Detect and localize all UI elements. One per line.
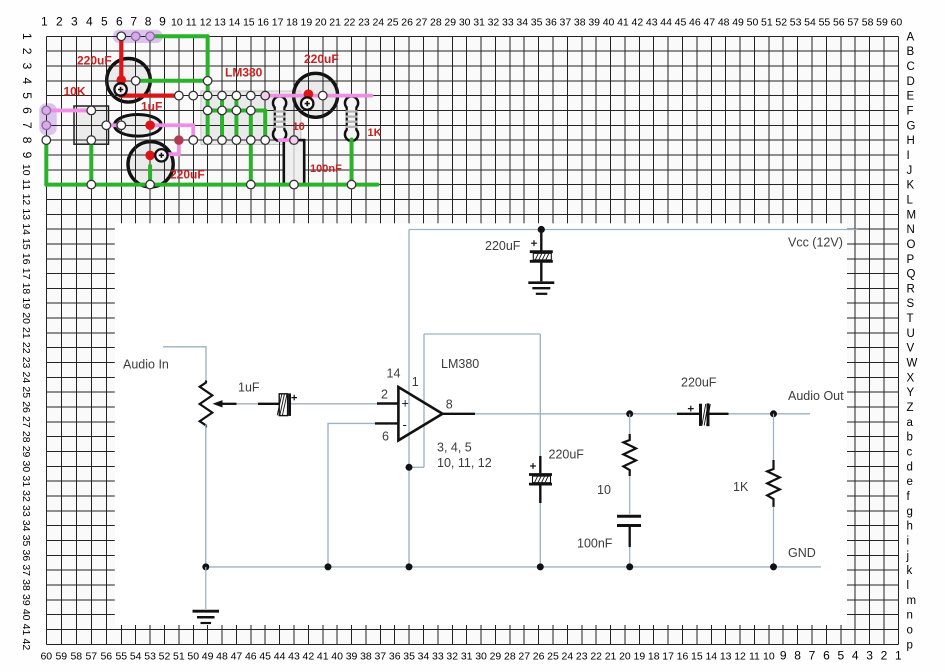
svg-text:4: 4	[86, 15, 93, 29]
svg-text:220uF: 220uF	[549, 448, 585, 462]
svg-text:l: l	[907, 580, 910, 592]
svg-text:2: 2	[881, 649, 888, 663]
wire pink row5 col16-col23.5	[265, 94, 371, 98]
svg-text:7: 7	[20, 122, 34, 129]
svg-text:6: 6	[823, 649, 830, 663]
svg-text:8: 8	[794, 649, 801, 663]
resistor 10 zigzag	[623, 434, 636, 476]
svg-text:11: 11	[186, 17, 197, 29]
node gnd dot 1k	[770, 563, 777, 570]
ground symbol bottom	[193, 611, 220, 623]
svg-text:c: c	[907, 447, 913, 459]
svg-text:37: 37	[560, 17, 572, 29]
svg-text:7: 7	[809, 649, 816, 663]
svg-text:14: 14	[20, 223, 32, 235]
svg-text:e: e	[907, 476, 913, 488]
label 220uF output	[681, 376, 717, 390]
svg-text:20: 20	[315, 17, 327, 29]
svg-text:9: 9	[20, 152, 34, 159]
svg-text:57: 57	[847, 17, 859, 29]
label 220uF bottom	[170, 167, 205, 181]
label 220uF right	[304, 52, 339, 66]
pads row11 col4 col8 col15 col18 col22	[87, 180, 356, 189]
svg-text:3, 4, 5: 3, 4, 5	[437, 441, 472, 455]
svg-text:6: 6	[20, 107, 34, 114]
svg-text:E: E	[907, 91, 915, 103]
svg-text:n: n	[907, 610, 913, 622]
svg-text:32: 32	[446, 651, 458, 663]
node red dot 1uF plus col8 row7	[145, 120, 155, 130]
svg-text:47: 47	[231, 651, 243, 663]
wire 100nF to gnd	[629, 547, 631, 567]
pads row7 col1 col5 col6	[42, 121, 126, 130]
wire pin14 vertical (Vcc to ground via pins 3,4,5)	[408, 230, 410, 567]
node Vcc junction dot	[538, 226, 545, 233]
svg-text:12: 12	[734, 651, 746, 663]
marker plus ring cap2	[301, 97, 313, 109]
svg-text:23: 23	[576, 651, 588, 663]
svg-text:X: X	[907, 372, 915, 384]
wire 220uF mid to gnd	[539, 503, 541, 567]
wire gnd rail to ground symbol	[205, 567, 207, 609]
svg-text:T: T	[907, 313, 914, 325]
svg-text:f: f	[907, 491, 911, 503]
svg-text:16: 16	[677, 651, 689, 663]
svg-text:51: 51	[173, 651, 185, 663]
svg-text:39: 39	[346, 651, 358, 663]
svg-text:+: +	[402, 397, 409, 411]
label 100nF layout	[310, 163, 342, 175]
wire green col16 row6-row8	[263, 110, 267, 140]
svg-text:28: 28	[430, 17, 442, 29]
label 220uF mid	[549, 448, 585, 462]
svg-text:b: b	[907, 432, 913, 444]
svg-text:20: 20	[20, 312, 32, 324]
wire GND rail	[206, 566, 821, 568]
label 1K layout	[368, 127, 382, 139]
svg-text:i: i	[907, 536, 910, 548]
svg-text:8: 8	[446, 398, 453, 412]
svg-text:3: 3	[71, 15, 78, 29]
svg-text:33: 33	[432, 651, 444, 663]
svg-text:27: 27	[416, 17, 428, 29]
svg-text:6: 6	[116, 15, 123, 29]
svg-text:60: 60	[891, 17, 903, 29]
label 1K schematic	[733, 480, 749, 494]
svg-text:59: 59	[55, 651, 67, 663]
svg-text:52: 52	[775, 17, 787, 29]
svg-text:GND: GND	[788, 546, 816, 560]
svg-text:18: 18	[20, 283, 32, 295]
svg-text:V: V	[907, 343, 915, 355]
axis labels top 1-60	[41, 15, 902, 29]
svg-text:9: 9	[159, 15, 166, 29]
svg-text:29: 29	[444, 17, 456, 29]
svg-text:13: 13	[720, 651, 732, 663]
svg-text:40: 40	[603, 17, 615, 29]
svg-text:19: 19	[633, 651, 645, 663]
svg-text:10: 10	[597, 483, 611, 497]
svg-text:7: 7	[130, 15, 137, 29]
schematic white area (erases grid, leaves tick stubs)	[115, 223, 847, 625]
svg-text:100nF: 100nF	[577, 537, 613, 551]
svg-text:L: L	[907, 194, 914, 206]
svg-text:1uF: 1uF	[238, 381, 260, 395]
svg-text:36: 36	[20, 550, 32, 562]
svg-text:23: 23	[358, 17, 370, 29]
svg-text:10, 11, 12: 10, 11, 12	[437, 456, 492, 470]
svg-text:h: h	[907, 521, 913, 533]
wire green col12 row1-row8	[206, 36, 210, 140]
label Audio In	[123, 358, 169, 372]
svg-text:11: 11	[20, 179, 32, 190]
svg-text:31: 31	[461, 651, 473, 663]
svg-text:1uF: 1uF	[141, 99, 162, 113]
svg-text:m: m	[907, 595, 917, 607]
resistor 1K body (dogbone col 22)	[345, 96, 358, 141]
svg-text:1K: 1K	[733, 480, 749, 494]
wire Audio In	[163, 347, 206, 381]
node junction dot pins345	[406, 464, 413, 471]
label GND	[788, 546, 816, 560]
svg-text:4: 4	[20, 77, 34, 84]
svg-text:58: 58	[70, 651, 82, 663]
wire pink col8 row7 to col11 row8	[150, 125, 193, 140]
wire resistor to 100nF	[629, 476, 631, 514]
axis labels left 1-42 rotated	[20, 33, 34, 650]
svg-text:53: 53	[790, 17, 802, 29]
svg-text:18: 18	[286, 17, 298, 29]
wire pink row6 col1-col4	[46, 109, 91, 113]
svg-text:5: 5	[20, 92, 34, 99]
wire green col1 row8-row11	[44, 140, 48, 184]
wire pot wiper to 1uF	[237, 403, 259, 405]
svg-text:3: 3	[866, 649, 873, 663]
marker plus ring cap3	[155, 149, 167, 161]
pin 6 stub	[375, 422, 398, 424]
svg-text:22: 22	[20, 342, 32, 354]
svg-text:K: K	[907, 180, 915, 192]
wire green row11 col1-col24	[46, 183, 377, 187]
svg-text:25: 25	[387, 17, 399, 29]
label 10 schematic	[597, 483, 611, 497]
label pins 3 4 5	[437, 441, 472, 455]
pads row4 col7 col12	[131, 76, 212, 85]
svg-text:I: I	[907, 150, 910, 162]
svg-text:26: 26	[20, 401, 32, 413]
svg-text:31: 31	[473, 17, 485, 29]
svg-text:28: 28	[20, 431, 32, 443]
svg-text:Vcc (12V): Vcc (12V)	[788, 236, 843, 250]
svg-text:24: 24	[562, 651, 574, 663]
svg-text:D: D	[907, 76, 915, 88]
svg-text:d: d	[907, 461, 913, 473]
svg-text:33: 33	[502, 17, 514, 29]
wire 1uF to pin2	[291, 403, 377, 405]
svg-text:5: 5	[837, 649, 844, 663]
svg-text:15: 15	[243, 17, 255, 29]
svg-text:12: 12	[20, 194, 32, 206]
svg-text:38: 38	[360, 651, 372, 663]
svg-text:Q: Q	[907, 269, 916, 281]
node gnd dot rc	[626, 563, 633, 570]
pads row1 cols6-8	[117, 32, 154, 41]
svg-text:12: 12	[200, 17, 212, 29]
svg-text:W: W	[907, 358, 918, 370]
svg-text:14: 14	[229, 17, 241, 29]
svg-text:49: 49	[732, 17, 744, 29]
svg-text:37: 37	[20, 564, 32, 576]
svg-text:40: 40	[20, 609, 32, 621]
node gnd dot pins345	[406, 563, 413, 570]
svg-text:10K: 10K	[64, 85, 86, 99]
svg-text:Audio In: Audio In	[123, 358, 169, 372]
svg-text:B: B	[907, 46, 915, 58]
svg-text:17: 17	[20, 268, 32, 280]
svg-text:1: 1	[895, 649, 902, 663]
svg-text:41: 41	[317, 651, 329, 663]
label LM380 layout	[225, 66, 263, 80]
svg-text:N: N	[907, 224, 915, 236]
label pins 10 11 12	[437, 456, 492, 470]
wire green col22 row8-row11	[350, 140, 354, 185]
svg-text:8: 8	[145, 15, 152, 29]
node maroon dot col10 row8	[174, 135, 184, 145]
node output junction dot left	[626, 410, 633, 417]
svg-text:1: 1	[41, 15, 48, 29]
pads row5 cols10-16 and col20	[175, 91, 328, 100]
svg-text:19: 19	[301, 17, 313, 29]
svg-text:28: 28	[504, 651, 516, 663]
svg-text:45: 45	[259, 651, 271, 663]
svg-text:10: 10	[20, 164, 32, 176]
wire red col6 row1 to row5 then to col10	[121, 36, 179, 95]
svg-text:25: 25	[20, 386, 32, 398]
svg-text:220uF: 220uF	[77, 53, 112, 67]
svg-text:15: 15	[20, 238, 32, 250]
wire LM380 box right edge	[539, 334, 541, 456]
svg-text:A: A	[907, 31, 915, 43]
svg-text:51: 51	[761, 17, 773, 29]
capacitor 1uF body (ellipse)	[114, 115, 161, 137]
svg-text:P: P	[907, 254, 915, 266]
svg-text:13: 13	[214, 17, 226, 29]
svg-text:35: 35	[20, 535, 32, 547]
svg-text:56: 56	[833, 17, 845, 29]
ground symbol top cap	[528, 283, 554, 294]
svg-text:56: 56	[100, 651, 112, 663]
pin labels 14 1 2 6 8	[381, 367, 453, 444]
svg-text:53: 53	[144, 651, 156, 663]
svg-text:34: 34	[516, 17, 528, 29]
svg-text:21: 21	[605, 651, 617, 663]
svg-text:10: 10	[171, 17, 183, 29]
node red dot cap3 plus col8 row9	[145, 151, 155, 161]
label 10 layout	[293, 121, 305, 133]
svg-text:o: o	[907, 625, 913, 637]
svg-text:35: 35	[531, 17, 543, 29]
wire pink row8 col17-col18	[280, 138, 294, 142]
potentiometer (volume) zigzag	[200, 381, 213, 428]
wire green col13 row5-row8	[220, 96, 224, 140]
highlighted pads strip left (col 1 rows 6-7)	[39, 103, 56, 135]
capacitor 1uF symbol	[258, 393, 297, 416]
svg-text:32: 32	[20, 490, 32, 502]
svg-text:27: 27	[518, 651, 530, 663]
potentiometer 10K body	[74, 106, 109, 144]
svg-text:46: 46	[689, 17, 701, 29]
svg-text:59: 59	[876, 17, 888, 29]
svg-text:9: 9	[780, 649, 787, 663]
svg-text:21: 21	[329, 17, 341, 29]
wire ground stub pins345	[409, 466, 424, 468]
svg-text:j: j	[906, 550, 910, 562]
wire output to 220uF	[475, 413, 677, 415]
svg-text:36: 36	[545, 17, 557, 29]
wire green col4 row8-row11	[89, 140, 93, 184]
svg-text:C: C	[907, 61, 915, 73]
svg-text:p: p	[907, 639, 913, 651]
svg-text:54: 54	[130, 651, 142, 663]
svg-text:2: 2	[56, 15, 63, 29]
pads row8 col1 col4 cols11-16 col18	[42, 136, 298, 145]
axis labels right A-Z a-p	[906, 31, 918, 651]
svg-text:46: 46	[245, 651, 257, 663]
svg-text:13: 13	[20, 208, 32, 220]
capacitor 220uF body (top-left electrolytic)	[107, 59, 151, 103]
svg-text:45: 45	[675, 17, 687, 29]
svg-text:42: 42	[631, 17, 643, 29]
svg-text:21: 21	[20, 327, 32, 339]
svg-text:LM380: LM380	[225, 66, 263, 80]
svg-text:41: 41	[20, 624, 32, 636]
svg-text:Z: Z	[907, 402, 914, 414]
svg-text:Y: Y	[907, 387, 915, 399]
svg-text:29: 29	[490, 651, 502, 663]
svg-text:44: 44	[274, 651, 286, 663]
svg-text:O: O	[907, 239, 916, 251]
highlighted pads strip top (cols 6-8 row 1)	[113, 30, 163, 43]
svg-text:55: 55	[115, 651, 127, 663]
svg-text:14: 14	[705, 651, 717, 663]
potentiometer wiper arrow	[213, 400, 237, 407]
svg-text:43: 43	[288, 651, 300, 663]
svg-text:220uF: 220uF	[170, 167, 205, 181]
wire Vcc rail	[409, 229, 858, 231]
svg-text:18: 18	[648, 651, 660, 663]
svg-text:1: 1	[412, 375, 419, 389]
node gnd dot pot	[202, 563, 209, 570]
wire green row1 col8-col12	[150, 34, 208, 38]
svg-text:2: 2	[20, 48, 34, 55]
svg-text:220uF: 220uF	[681, 376, 717, 390]
svg-text:1K: 1K	[368, 127, 382, 139]
svg-text:a: a	[907, 417, 914, 429]
svg-text:4: 4	[852, 649, 859, 663]
svg-text:43: 43	[646, 17, 658, 29]
svg-text:34: 34	[418, 651, 430, 663]
svg-text:54: 54	[804, 17, 816, 29]
label 1uF schematic	[238, 381, 260, 395]
svg-text:29: 29	[20, 446, 32, 458]
label 220uF top-left	[77, 53, 112, 67]
wire 1K to gnd	[773, 507, 775, 567]
svg-text:60: 60	[40, 651, 52, 663]
svg-text:37: 37	[374, 651, 386, 663]
svg-text:14: 14	[387, 367, 401, 381]
svg-text:23: 23	[20, 357, 32, 369]
svg-text:24: 24	[20, 372, 32, 384]
svg-text:20: 20	[619, 651, 631, 663]
svg-text:30: 30	[20, 461, 32, 473]
svg-text:33: 33	[20, 505, 32, 517]
svg-text:19: 19	[20, 297, 32, 309]
svg-text:17: 17	[662, 651, 674, 663]
svg-text:6: 6	[382, 430, 389, 444]
node red dot cap1 plus col6 row4	[117, 75, 127, 85]
svg-text:16: 16	[257, 17, 269, 29]
svg-text:49: 49	[202, 651, 214, 663]
label 10K	[64, 85, 86, 99]
svg-text:44: 44	[660, 17, 672, 29]
wire pot bottom to gnd	[205, 425, 207, 567]
wire pink row7 col5-col6	[106, 123, 121, 127]
svg-text:50: 50	[747, 17, 759, 29]
wire output dot down to resistor 10	[629, 414, 631, 434]
node gnd dot pin6	[325, 563, 332, 570]
svg-text:57: 57	[85, 651, 97, 663]
svg-text:220uF: 220uF	[485, 239, 521, 253]
pin 8 output stub	[443, 413, 476, 415]
svg-text:M: M	[907, 209, 917, 221]
wire LM380 box left edge	[423, 334, 425, 467]
svg-text:48: 48	[216, 651, 228, 663]
wire LM380 box top edge	[424, 333, 540, 335]
resistor 10 body (dogbone col 17)	[273, 96, 286, 141]
IC LM380 DIP body	[201, 91, 301, 145]
svg-text:100nF: 100nF	[310, 163, 342, 175]
svg-text:47: 47	[703, 17, 715, 29]
pads row6 col1 col4 cols12-15	[42, 106, 255, 115]
svg-text:10: 10	[763, 651, 775, 663]
wire green col14 row5-row8	[234, 96, 238, 140]
svg-text:22: 22	[590, 651, 602, 663]
svg-text:220uF: 220uF	[304, 52, 339, 66]
svg-text:42: 42	[303, 651, 315, 663]
svg-text:10: 10	[293, 121, 305, 133]
svg-text:38: 38	[20, 579, 32, 591]
svg-text:8: 8	[20, 137, 34, 144]
svg-text:LM380: LM380	[441, 357, 479, 371]
wire pink col10 row8 to col8 row9	[150, 140, 179, 154]
svg-text:Audio Out: Audio Out	[788, 389, 844, 403]
wire green col8 cap lead to row11	[148, 166, 152, 185]
wire green row4 col7-col12	[136, 79, 208, 83]
svg-text:16: 16	[20, 253, 32, 265]
svg-text:31: 31	[20, 475, 32, 487]
resistor 1K zigzag	[767, 460, 780, 507]
svg-text:30: 30	[459, 17, 471, 29]
svg-text:k: k	[907, 565, 913, 577]
node output junction dot right	[770, 410, 777, 417]
svg-text:52: 52	[159, 651, 171, 663]
svg-text:39: 39	[588, 17, 600, 29]
wire pin6 feedback to gnd	[328, 423, 375, 567]
label 100nF schematic	[577, 537, 613, 551]
node red dot cap2 plus col19 row5	[304, 89, 314, 99]
svg-text:3: 3	[20, 63, 34, 70]
wire green row6 col12-col16	[208, 108, 266, 112]
